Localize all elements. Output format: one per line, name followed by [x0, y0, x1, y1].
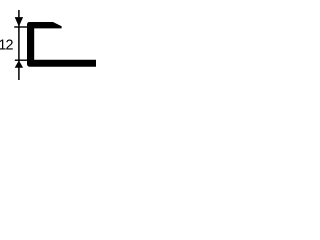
profile cross-section (J-channel outline) — [27, 22, 96, 67]
dimension line — [18, 10, 20, 80]
background — [0, 0, 96, 96]
top extension tick — [14, 26, 27, 28]
top arrowhead (points down) — [15, 17, 23, 27]
bottom extension tick — [15, 59, 27, 61]
svg-text:12: 12 — [0, 37, 14, 53]
bottom arrowhead (points up) — [15, 60, 23, 67]
